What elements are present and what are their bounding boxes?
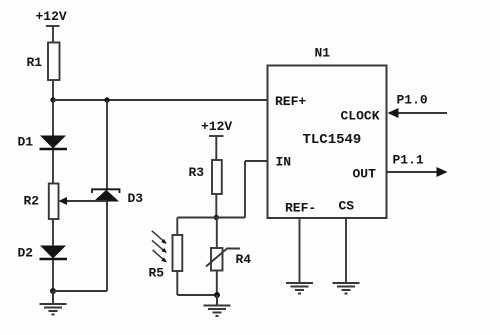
resistor R1	[27, 43, 60, 81]
wire CS to ground	[345, 218, 347, 283]
svg-text:D2: D2	[18, 246, 34, 261]
svg-text:REF+: REF+	[275, 94, 306, 109]
svg-text:IN: IN	[276, 155, 292, 170]
wire D3 to bottom	[106, 202, 108, 292]
wire node D to R4	[216, 218, 218, 249]
wire REF+ bus	[53, 99, 268, 101]
diode D2	[18, 246, 68, 261]
wire node D horizontal run	[177, 217, 245, 219]
svg-text:CS: CS	[339, 199, 355, 214]
ground (REF-)	[286, 283, 313, 294]
wire bottom-left run	[53, 290, 107, 292]
+12V supply (left)	[36, 9, 67, 43]
wire node A to D1	[52, 100, 54, 136]
svg-text:+12V: +12V	[36, 9, 67, 24]
svg-text:R2: R2	[24, 194, 40, 209]
svg-text:N1: N1	[315, 46, 331, 61]
diode D1	[18, 135, 68, 150]
wire OUT output with arrow	[387, 167, 448, 177]
ground (CS)	[333, 283, 360, 294]
svg-text:D1: D1	[18, 135, 34, 150]
ground (middle)	[204, 295, 231, 316]
wire R2 wiper to D3 (arrow into R2)	[59, 197, 108, 205]
wire D2 to ground node	[52, 260, 54, 291]
wire R2 to D2	[52, 219, 54, 246]
wire R1 bottom	[52, 80, 54, 100]
ground (left)	[40, 291, 67, 315]
svg-text:P1.0: P1.0	[397, 93, 428, 108]
node E (bottom-middle junction)	[214, 292, 220, 298]
svg-text:OUT: OUT	[353, 167, 377, 182]
+12V supply (middle)	[201, 119, 232, 160]
wire node B to D3	[106, 100, 108, 189]
node C (bottom-left junction)	[50, 288, 56, 294]
node A (R1 bottom junction)	[50, 97, 55, 102]
wire R5 bottom	[176, 271, 178, 295]
wire CLOCK input with arrow	[388, 108, 448, 118]
node D (R3/R4/R5/IN junction)	[214, 215, 219, 220]
svg-text:TLC1549: TLC1549	[303, 132, 362, 148]
photoresistor R5	[149, 231, 183, 281]
svg-text:R5: R5	[149, 266, 165, 281]
svg-text:R3: R3	[189, 165, 205, 180]
svg-text:R4: R4	[236, 252, 252, 267]
wire R3 bottom	[215, 194, 217, 218]
svg-text:P1.1: P1.1	[393, 153, 424, 168]
resistor R3	[189, 160, 222, 194]
thermistor R4	[206, 248, 251, 271]
wire REF- to ground	[299, 218, 301, 283]
svg-text:REF-: REF-	[285, 201, 316, 216]
svg-text:R1: R1	[27, 55, 43, 70]
wire R5 to node E	[177, 294, 217, 296]
svg-text:CLOCK: CLOCK	[341, 109, 380, 124]
svg-text:D3: D3	[128, 191, 144, 206]
wire down to R5	[176, 218, 178, 236]
zener diode D3	[92, 189, 143, 206]
node B (D3 branch junction)	[104, 97, 109, 102]
wire D1 to R2	[52, 150, 54, 184]
potentiometer R2	[24, 184, 59, 220]
svg-text:+12V: +12V	[201, 119, 232, 134]
IC N1 (TLC1549 ADC)	[268, 46, 387, 219]
wire R4 bottom	[216, 271, 218, 296]
wire IN net	[245, 161, 268, 218]
